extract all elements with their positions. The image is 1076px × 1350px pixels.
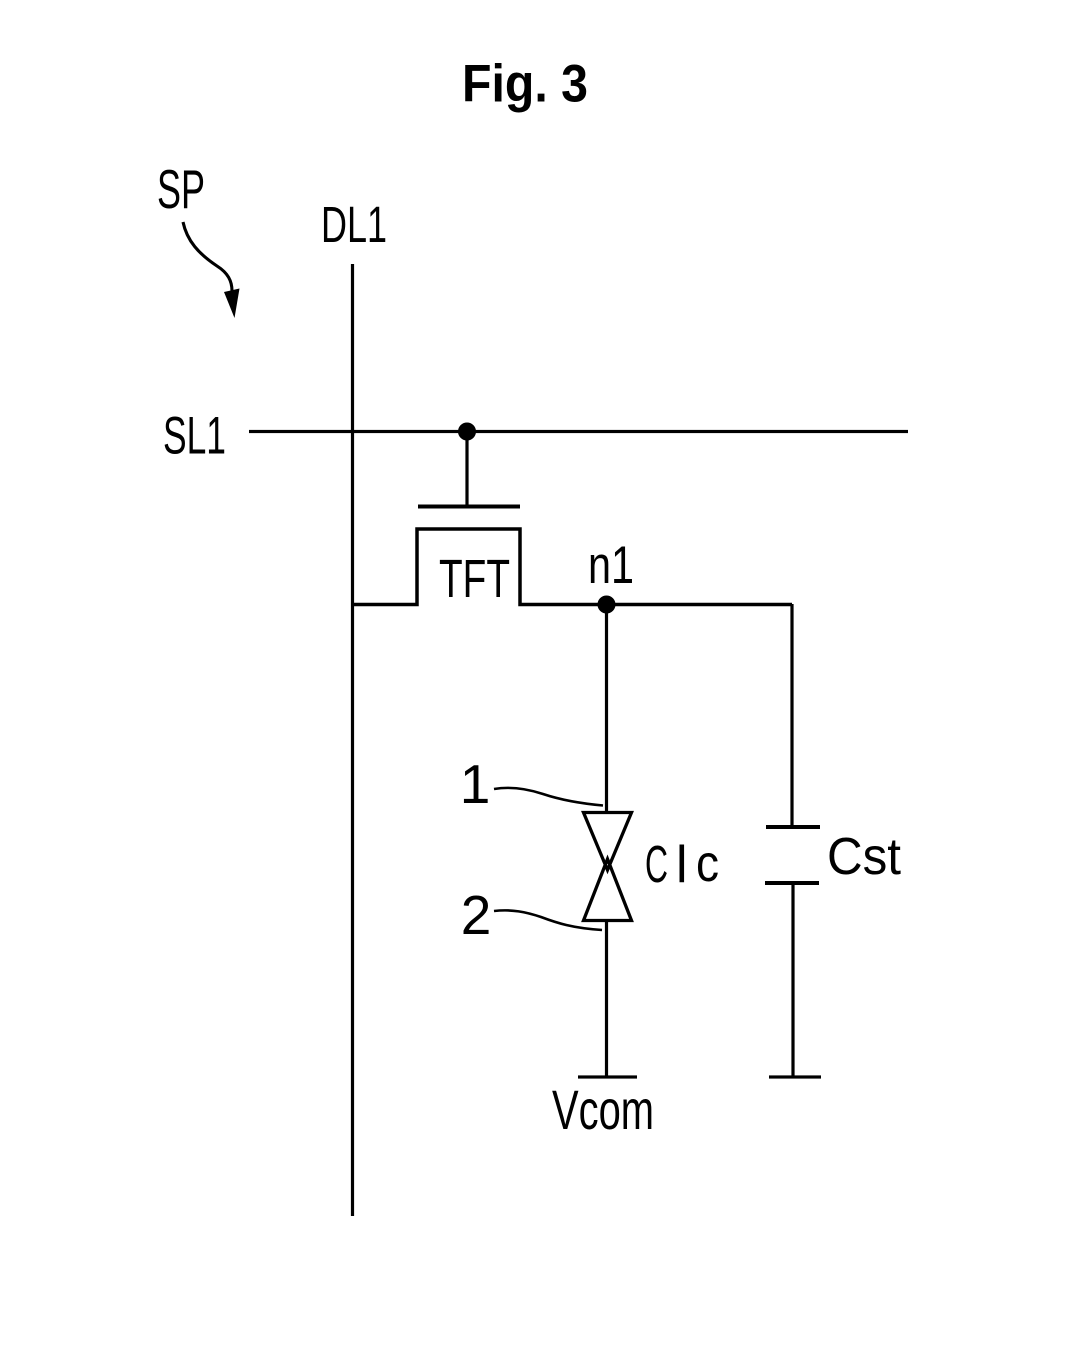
svg-text:DL1: DL1 (321, 196, 387, 253)
node n1 junction dot (598, 596, 616, 614)
junction dot on SL1 (gate node) (458, 423, 476, 441)
wire n1 to Cst (right branch vertical) (790, 604, 793, 827)
wire Cst to lower terminal (791, 885, 794, 1077)
capacitor Cst top plate (766, 825, 820, 829)
svg-text:TFT: TFT (439, 549, 510, 609)
wire n1 to Clc (605, 604, 608, 812)
svg-text:n1: n1 (588, 536, 634, 595)
svg-text:1: 1 (460, 753, 491, 815)
terminal Vcom bar (578, 1075, 637, 1078)
svg-text:l: l (676, 836, 688, 894)
terminal bar below Cst (769, 1075, 821, 1078)
svg-text:Vcom: Vcom (552, 1078, 654, 1141)
leader line 1 (494, 788, 603, 806)
wire Clc to Vcom terminal (605, 921, 608, 1078)
capacitor Cst bottom plate (765, 881, 819, 885)
leader line 2 (494, 910, 602, 930)
wire gate lead (465, 431, 468, 505)
svg-text:C: C (645, 836, 668, 894)
wire DL1 data line (vertical) (351, 264, 354, 1216)
transistor Q TFT channel body (353, 529, 793, 605)
svg-text:2: 2 (461, 884, 492, 946)
capacitor Clc (liquid crystal, hourglass symbol) (584, 813, 632, 921)
svg-text:SL1: SL1 (163, 407, 226, 466)
SP leader arrow (183, 222, 240, 318)
svg-text:SP: SP (157, 158, 205, 220)
label Clc (645, 835, 719, 894)
svg-text:Fig. 3: Fig. 3 (462, 55, 588, 114)
svg-text:c: c (696, 835, 719, 893)
transistor Q TFT gate bar (418, 505, 520, 509)
wire SL1 scan line (horizontal) (249, 430, 908, 433)
svg-text:Cst: Cst (827, 828, 902, 886)
